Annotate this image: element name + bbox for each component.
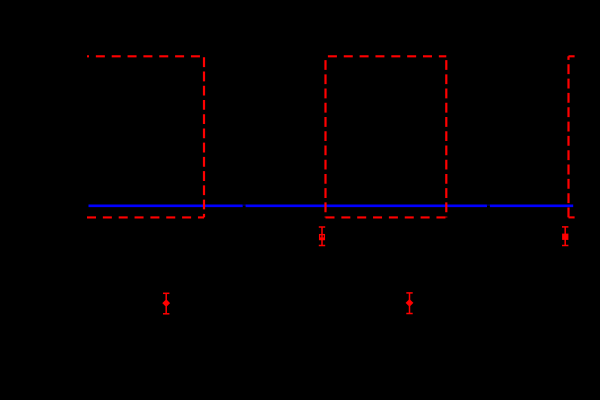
data point 4: error bar (562, 227, 568, 246)
data point 4: filled square marker (562, 234, 568, 240)
data point 2: bottom-half-filled square marker (320, 235, 325, 240)
red dashed box 1: bottom edge (87, 216, 204, 218)
blue model line segment 1 (89, 205, 243, 208)
data point 3: filled diamond marker (406, 300, 412, 306)
red dashed box 2: left vertical edge (324, 56, 326, 217)
data point 1: error bar (163, 293, 169, 314)
red dashed box 3: bottom edge stub (569, 216, 575, 218)
red dashed box 2: right vertical edge (445, 56, 447, 217)
blue model line segment 3 (490, 205, 573, 208)
blue model dim bridge 2 (487, 204, 490, 206)
red dashed box 3: top edge stub (569, 55, 575, 57)
blue model line segment 2 (246, 205, 487, 208)
data point 1: filled diamond marker (163, 300, 169, 306)
red dashed box 2: top edge (326, 55, 447, 57)
red dashed box 1 (clipped at left axis edge): top edge (87, 55, 204, 57)
data point 3: error bar (406, 293, 412, 314)
red dashed box 2: bottom edge (326, 216, 447, 218)
red dashed box 1: right vertical edge (203, 56, 205, 217)
red dashed box 3 (clipped at right axis edge): left vertical edge (567, 56, 569, 217)
data point 2: error bar (319, 227, 325, 246)
blue model dim bridge 1 (243, 204, 248, 206)
